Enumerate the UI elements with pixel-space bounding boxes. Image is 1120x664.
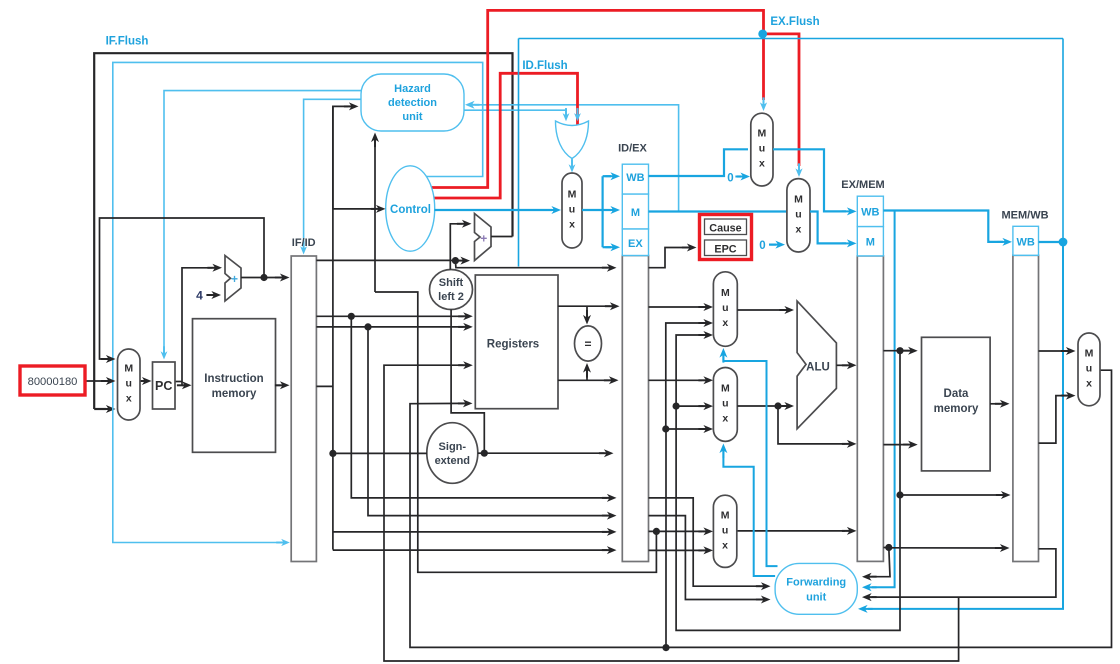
wire destination mux to EX/MEM <box>737 527 857 535</box>
wire mux2 to EX/MEM M <box>810 212 857 248</box>
wire adder output to IF/ID <box>241 274 290 282</box>
svg-text:unit: unit <box>806 592 826 604</box>
svg-text:M: M <box>721 509 730 521</box>
svg-text:x: x <box>1086 377 1092 389</box>
junction WB-feedback dot <box>1059 238 1068 247</box>
svg-text:EX: EX <box>628 238 643 250</box>
wire EX/MEM rd out <box>883 544 1009 552</box>
svg-text:M: M <box>568 189 577 201</box>
svg-text:x: x <box>126 393 132 405</box>
wire sign-extend to ID/EX <box>478 449 614 457</box>
wire IFIDWrite hazard to IF/ID top <box>300 99 361 254</box>
svg-text:EX.Flush: EX.Flush <box>770 16 819 28</box>
label ID/EX <box>618 143 647 155</box>
block Control <box>386 166 435 251</box>
wire data memory out to MEM/WB <box>990 400 1009 408</box>
mux forward B <box>713 368 737 442</box>
wire ID/EX MemRead up into hazard unit <box>465 101 679 212</box>
svg-text:M: M <box>631 207 640 219</box>
box Registers <box>475 275 558 409</box>
wire ALU result down to MEM/WB <box>896 351 1010 499</box>
svg-text:Hazard: Hazard <box>394 83 431 95</box>
svg-text:M: M <box>866 237 875 249</box>
svg-text:x: x <box>722 317 728 329</box>
svg-text:M: M <box>124 363 133 375</box>
wire 80000180 to PC mux <box>86 377 116 385</box>
wire PC+4 into ID/EX <box>455 261 616 272</box>
box Data memory <box>922 337 991 471</box>
junction WB value dot <box>662 644 669 651</box>
oval shift left 2 <box>430 270 473 310</box>
svg-text:+: + <box>480 232 487 246</box>
svg-text:=: = <box>584 337 591 351</box>
wire EX/MEM store data to data memory <box>883 441 917 449</box>
wire read register 2 <box>316 323 472 331</box>
wire zero mux to ID/EX WB-M-EX <box>582 172 620 251</box>
svg-text:4: 4 <box>196 289 203 303</box>
wire read data 2 to ID/EX <box>558 376 619 384</box>
wire PC to instruction memory <box>175 381 192 389</box>
wire zero into mux2 <box>759 240 785 252</box>
svg-text:extend: extend <box>435 455 470 467</box>
wire MEM/WB WB to feedback dot <box>1039 241 1064 243</box>
register PC <box>153 362 176 409</box>
wire ALU result to EX/MEM <box>836 361 856 369</box>
wire red Control flush upper (EX.Flush) to mux over EX/MEM <box>429 10 767 187</box>
svg-text:Data: Data <box>944 388 970 400</box>
svg-text:u: u <box>722 524 728 536</box>
wire write-back value bottom rail <box>410 370 1112 647</box>
svg-text:M: M <box>721 287 730 299</box>
wire rt number down into ID/EX <box>368 327 617 520</box>
label MEM/WB <box>1001 210 1048 222</box>
wire instruction memory to IF/ID <box>275 381 290 389</box>
wire EX/MEM ALU result to data memory <box>883 347 917 355</box>
wire ID/EX rt to hazard and destination mux <box>375 292 656 572</box>
wire PC+4 back to PC mux top input <box>100 218 265 363</box>
wire ID/EX rt out to destination mux <box>649 527 714 535</box>
svg-text:memory: memory <box>934 403 979 415</box>
mux PC source <box>118 349 141 420</box>
wire MEM/WB ALU value to final mux <box>1039 392 1076 444</box>
mux EX.Flush WB mux <box>751 113 773 186</box>
svg-text:u: u <box>1086 362 1092 374</box>
wire mux B to ALU <box>737 402 794 410</box>
wire MEM/WB WB-feedback top rail <box>519 38 1064 40</box>
label EX.Flush <box>770 16 819 28</box>
svg-text:M: M <box>721 382 730 394</box>
svg-text:Cause: Cause <box>709 223 741 235</box>
register ID/EX bar <box>622 256 648 562</box>
svg-text:x: x <box>759 158 765 170</box>
register EX/MEM WB box <box>857 196 883 226</box>
wire read register 1 <box>316 312 472 320</box>
svg-text:Instruction: Instruction <box>204 373 263 385</box>
svg-text:ID/EX: ID/EX <box>618 143 647 155</box>
wire ForwardA to mux A select <box>719 348 777 566</box>
wire Control to zero mux <box>435 206 562 214</box>
svg-text:x: x <box>796 223 802 235</box>
wire MEM/WB data to final mux <box>1039 347 1076 355</box>
wire instruction into Control <box>333 205 386 213</box>
wire ALU result forward rail <box>673 331 901 630</box>
svg-text:WB: WB <box>861 207 879 219</box>
wire IF.Flush from Control around top-left into IF/ID <box>113 62 483 546</box>
wire PC mux to PC <box>137 377 152 385</box>
wire branch adder out to border loop <box>491 236 513 238</box>
wire read data 1 to ID/EX <box>558 302 620 310</box>
mux forward A <box>713 272 737 347</box>
wire read data 1 to comparator <box>583 306 591 324</box>
oval sign-extend <box>427 423 478 484</box>
svg-text:Sign-: Sign- <box>439 441 467 453</box>
svg-text:Forwarding: Forwarding <box>786 577 846 589</box>
wire instruction to sign-extend <box>329 450 427 457</box>
wire WB value up to forward muxes <box>662 319 713 648</box>
wire OR gate output to zero mux <box>569 159 576 173</box>
wire branch-target loop top border <box>94 53 512 398</box>
wire EX/MEM WB down to forwarding unit <box>862 211 895 592</box>
svg-text:x: x <box>722 412 728 424</box>
register ID/EX WB box <box>622 164 648 194</box>
svg-text:0: 0 <box>759 240 765 252</box>
register ID/EX EX box <box>622 229 648 256</box>
register EX/MEM M box <box>857 227 883 256</box>
svg-text:Registers: Registers <box>487 339 539 351</box>
box 80000180 exception address <box>20 366 85 395</box>
wire red EX.Flush branch to mux over EX/MEM WB-M <box>764 34 803 177</box>
svg-text:memory: memory <box>212 388 257 400</box>
wire B value down to EX/MEM store data <box>778 406 857 448</box>
block Forwarding unit <box>775 563 857 614</box>
wire sign-extend tap up to shift left 2 <box>451 310 484 454</box>
wire branch-target into PC mux bottom input <box>94 398 115 413</box>
wire instruction bus from IF/ID <box>316 106 333 549</box>
wire ID/EX A to forward mux A <box>649 303 714 311</box>
wire MEM/WB rd to register write port <box>384 361 959 661</box>
svg-text:EPC: EPC <box>714 244 736 256</box>
svg-text:M: M <box>794 193 803 205</box>
wire zero into flush mux <box>727 173 750 185</box>
wire instruction rd field to ID/EX <box>333 546 617 554</box>
wire instruction to hazard unit <box>333 102 359 208</box>
wire mux A to ALU <box>737 306 794 314</box>
svg-text:Control: Control <box>390 204 431 216</box>
svg-text:80000180: 80000180 <box>28 376 78 388</box>
gate OR flush <box>556 121 589 159</box>
mux destination register <box>713 495 736 567</box>
register MEM/WB WB box <box>1013 226 1039 255</box>
svg-text:left 2: left 2 <box>438 291 464 303</box>
wire ID/EX M to EX-flush mux2 <box>649 210 787 212</box>
wire WB-feedback right drop <box>1062 39 1064 243</box>
wire ID/EX WB to flush mux <box>649 149 749 176</box>
wire ID/EX B to forward mux B <box>649 376 714 384</box>
wire read data 2 to comparator <box>583 363 591 380</box>
label IF/ID <box>292 237 316 249</box>
wire EX/MEM rd down to forwarding unit <box>862 548 890 581</box>
svg-text:u: u <box>569 204 575 216</box>
svg-text:u: u <box>722 302 728 314</box>
svg-text:WB: WB <box>1017 237 1035 249</box>
wire WB-feedback down to forwarding unit <box>858 242 1063 613</box>
svg-text:+: + <box>231 272 238 286</box>
wire ID/EX rs to forwarding unit <box>649 498 771 590</box>
arrowhead red into OR gate <box>574 108 581 121</box>
svg-text:u: u <box>795 208 801 220</box>
wire 4 into adder <box>196 289 221 303</box>
svg-text:0: 0 <box>727 173 733 185</box>
svg-text:EX/MEM: EX/MEM <box>841 179 884 191</box>
svg-text:PC: PC <box>155 379 172 393</box>
svg-text:unit: unit <box>402 111 422 123</box>
svg-text:Shift: Shift <box>439 277 464 289</box>
svg-text:M: M <box>758 128 767 140</box>
wire ID/EX to EPC <box>649 244 697 268</box>
wire instruction rt field to ID/EX <box>333 528 617 536</box>
svg-text:WB: WB <box>626 172 644 184</box>
wire ID/EX rd out to destination mux <box>649 546 714 554</box>
wire MEM/WB rd to forwarding unit <box>862 549 1056 601</box>
wire ForwardB to mux B select <box>719 444 775 577</box>
label EX/MEM <box>841 179 884 191</box>
svg-text:IF.Flush: IF.Flush <box>106 36 149 48</box>
wire PC up to PC+4 adder top input <box>182 264 222 382</box>
svg-text:ALU: ALU <box>806 362 830 374</box>
wire EX/MEM WB to MEM/WB WB <box>883 211 1012 246</box>
wire rs number down into ID/EX <box>351 316 616 502</box>
wire WB-feedback left drop to register write <box>518 39 520 267</box>
svg-text:u: u <box>126 378 132 390</box>
wire ID/EX rt to forwarding unit <box>649 516 771 604</box>
junction EX.Flush cyan dot <box>758 30 767 39</box>
wire IF/ID PC+4 to branch adder <box>316 257 470 265</box>
mux control bubble zero-mux <box>562 173 582 248</box>
register ID/EX M box <box>622 194 648 229</box>
svg-text:u: u <box>759 143 765 155</box>
svg-text:ID.Flush: ID.Flush <box>522 60 567 72</box>
register IF/ID <box>291 256 316 562</box>
wire hazard unit to OR gate left input <box>461 108 569 121</box>
mux EX.Flush M mux <box>787 179 810 252</box>
wire red ID.Flush from Control to OR gate <box>430 73 578 198</box>
label ID.Flush <box>522 60 567 72</box>
mux write-back final <box>1078 333 1100 406</box>
svg-text:detection: detection <box>388 97 437 109</box>
box instruction memory <box>193 319 276 453</box>
register MEM/WB bar <box>1013 255 1039 561</box>
adder branch target <box>475 214 492 261</box>
svg-text:M: M <box>1085 347 1094 359</box>
alu main ALU <box>797 301 836 429</box>
svg-text:MEM/WB: MEM/WB <box>1001 210 1048 222</box>
wire ID/EX.Rt up into hazard unit <box>371 133 379 293</box>
svg-text:x: x <box>722 539 728 551</box>
oval equality comparator <box>575 326 602 361</box>
svg-text:IF/ID: IF/ID <box>292 237 316 249</box>
wire shift left 2 to branch adder <box>450 220 471 270</box>
svg-text:x: x <box>569 219 575 231</box>
label IF.Flush <box>106 36 149 48</box>
wire PCWrite hazard to PC top <box>161 91 361 360</box>
adder PC+4 <box>225 256 241 302</box>
block hazard detection unit <box>361 74 464 131</box>
wire flush mux to EX/MEM WB <box>773 149 857 215</box>
box Cause EPC highlighted <box>700 215 752 260</box>
register EX/MEM bar <box>857 256 883 562</box>
svg-text:u: u <box>722 397 728 409</box>
